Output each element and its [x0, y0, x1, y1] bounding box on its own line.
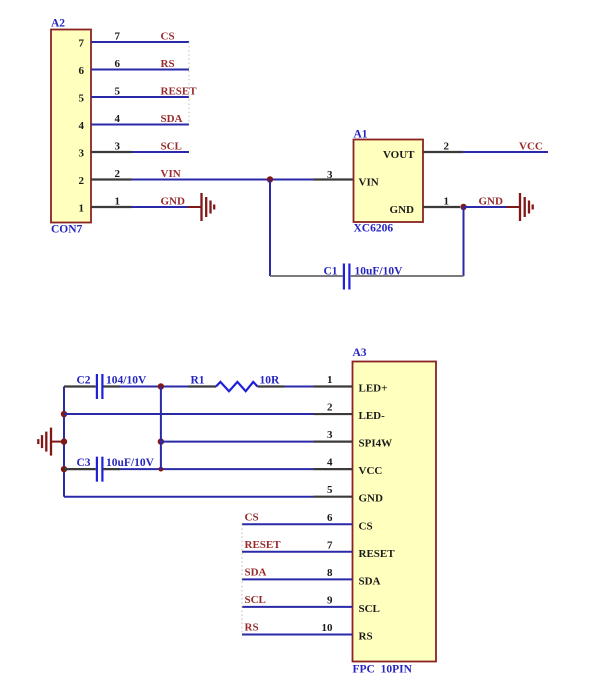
svg-text:4: 4 — [115, 113, 121, 125]
svg-text:VIN: VIN — [161, 168, 181, 180]
svg-text:6: 6 — [327, 512, 333, 524]
svg-text:1: 1 — [444, 196, 450, 208]
svg-text:10uF/10V: 10uF/10V — [106, 457, 155, 469]
svg-text:RS: RS — [245, 622, 259, 634]
svg-text:3: 3 — [79, 148, 85, 160]
svg-text:RS: RS — [161, 58, 175, 70]
svg-text:SDA: SDA — [161, 113, 183, 125]
svg-text:VIN: VIN — [359, 177, 379, 189]
svg-text:2: 2 — [327, 402, 333, 414]
svg-text:3: 3 — [327, 169, 333, 181]
svg-text:CS: CS — [245, 511, 259, 523]
svg-text:5: 5 — [115, 86, 121, 98]
svg-text:8: 8 — [327, 567, 333, 579]
svg-text:A1: A1 — [354, 129, 368, 141]
svg-text:RESET: RESET — [161, 86, 198, 98]
svg-text:4: 4 — [79, 120, 85, 132]
svg-text:SPI4W: SPI4W — [359, 438, 393, 450]
svg-text:CON7: CON7 — [51, 224, 83, 236]
svg-text:5: 5 — [327, 484, 333, 496]
svg-text:FPC 10PIN: FPC 10PIN — [353, 664, 413, 676]
svg-text:104/10V: 104/10V — [106, 375, 147, 387]
svg-text:1: 1 — [79, 203, 85, 215]
svg-text:7: 7 — [115, 31, 121, 43]
svg-text:GND: GND — [479, 196, 504, 208]
svg-text:CS: CS — [161, 31, 175, 43]
svg-text:5: 5 — [79, 93, 85, 105]
svg-text:7: 7 — [327, 539, 333, 551]
svg-text:SCL: SCL — [359, 603, 380, 615]
svg-text:SCL: SCL — [161, 141, 182, 153]
svg-text:10R: 10R — [260, 375, 281, 387]
svg-text:2: 2 — [115, 168, 121, 180]
svg-text:9: 9 — [327, 594, 333, 606]
svg-text:GND: GND — [359, 493, 384, 505]
svg-text:10: 10 — [322, 622, 334, 634]
svg-text:1: 1 — [115, 196, 121, 208]
svg-text:7: 7 — [79, 38, 85, 50]
svg-text:2: 2 — [444, 141, 450, 153]
svg-text:VCC: VCC — [359, 465, 383, 477]
svg-text:1: 1 — [327, 374, 333, 386]
svg-text:3: 3 — [115, 141, 121, 153]
svg-text:GND: GND — [161, 196, 186, 208]
svg-text:RS: RS — [359, 630, 373, 642]
svg-text:C2: C2 — [77, 375, 91, 387]
svg-text:RESET: RESET — [245, 539, 282, 551]
svg-text:LED+: LED+ — [359, 383, 388, 395]
svg-text:A2: A2 — [51, 17, 65, 29]
svg-text:A3: A3 — [353, 347, 367, 359]
svg-text:LED-: LED- — [359, 410, 386, 422]
svg-text:3: 3 — [327, 429, 333, 441]
svg-text:SDA: SDA — [359, 575, 381, 587]
svg-text:XC6206: XC6206 — [354, 223, 394, 235]
svg-text:4: 4 — [327, 457, 333, 469]
svg-text:2: 2 — [79, 175, 85, 187]
svg-text:6: 6 — [115, 58, 121, 70]
svg-text:C3: C3 — [77, 457, 91, 469]
svg-text:SCL: SCL — [245, 594, 266, 606]
svg-text:SDA: SDA — [245, 567, 267, 579]
svg-text:GND: GND — [390, 204, 415, 216]
svg-text:C1: C1 — [323, 266, 337, 278]
svg-text:10uF/10V: 10uF/10V — [355, 266, 404, 278]
svg-text:RESET: RESET — [359, 548, 396, 560]
svg-text:VCC: VCC — [519, 141, 543, 153]
svg-text:6: 6 — [79, 65, 85, 77]
svg-text:CS: CS — [359, 520, 373, 532]
svg-text:R1: R1 — [191, 375, 205, 387]
svg-text:VOUT: VOUT — [383, 149, 415, 161]
